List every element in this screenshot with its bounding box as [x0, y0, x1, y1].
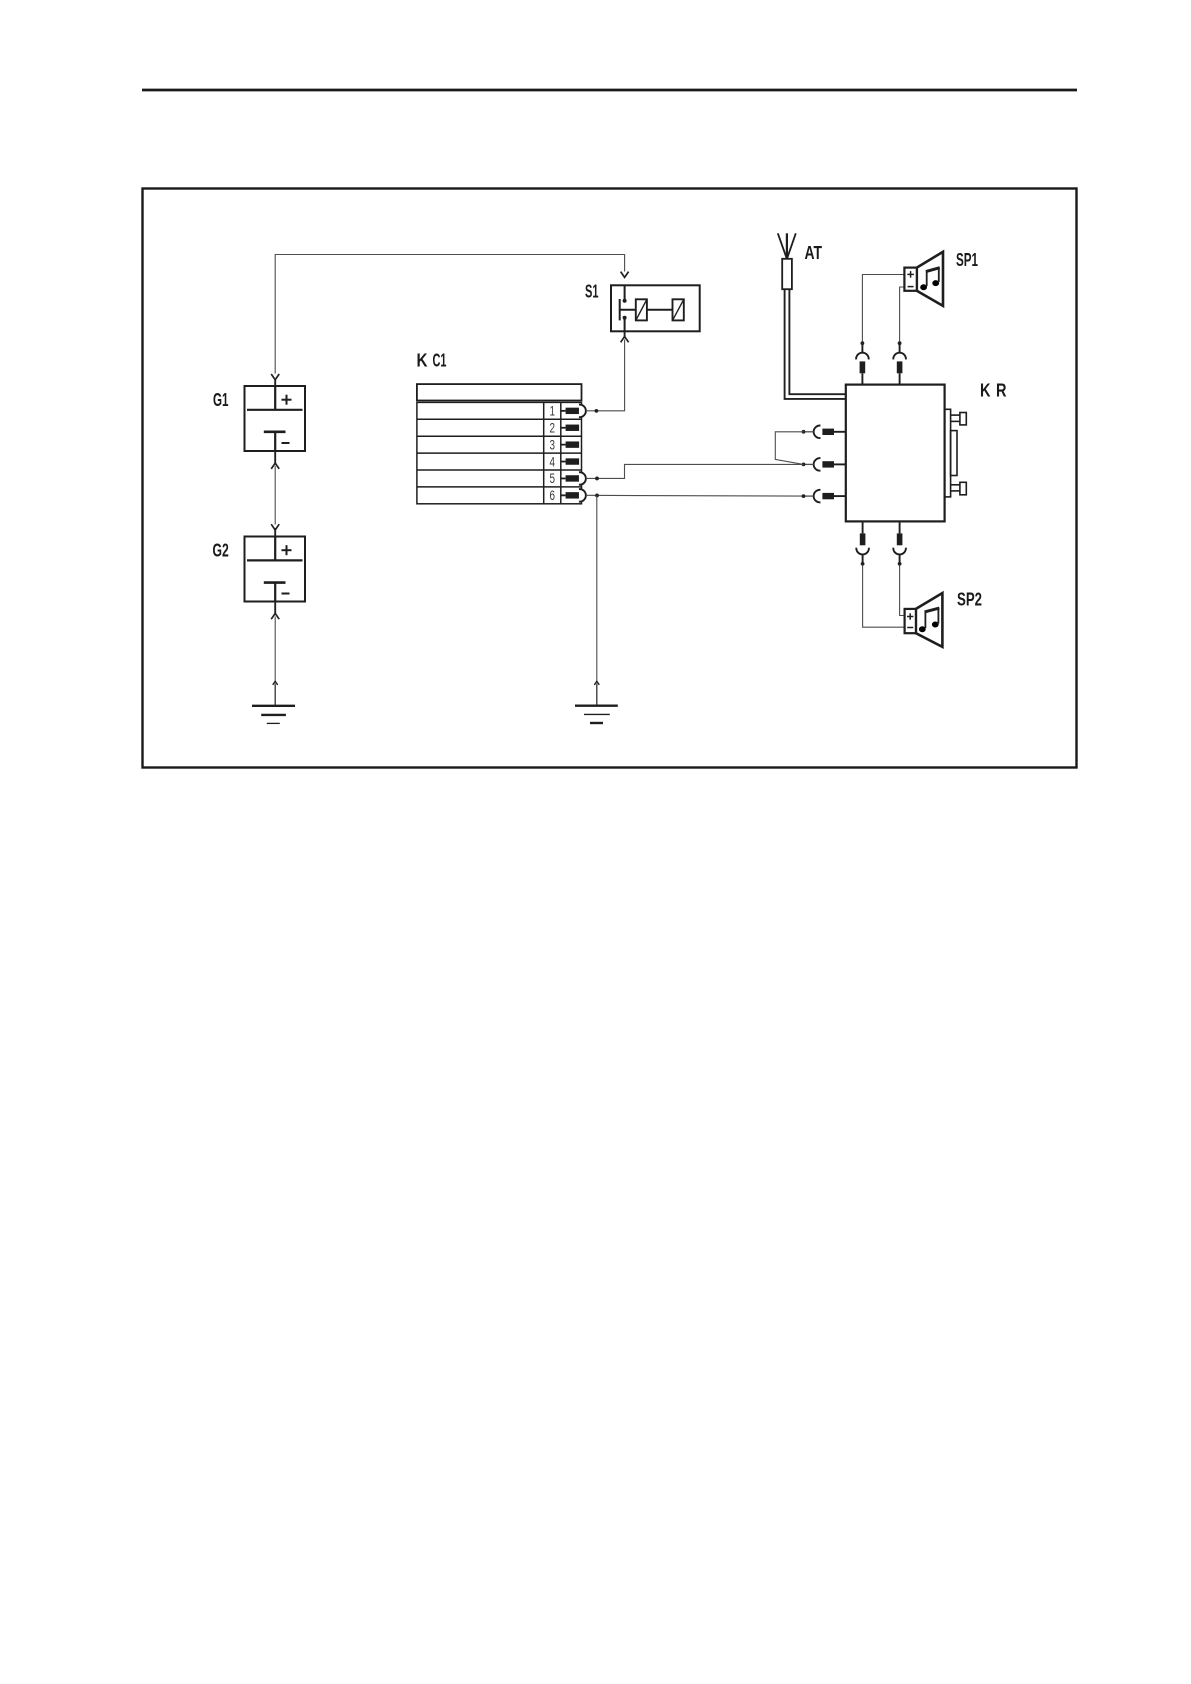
- radio bottom pin B2: [893, 521, 906, 565]
- pin 2 contact: [561, 425, 579, 431]
- switch S1: [611, 285, 700, 331]
- radio bottom pin B1: [856, 521, 869, 565]
- pin 1 contact: [561, 405, 586, 418]
- antenna coax to radio: [785, 289, 846, 399]
- speaker SP2: [905, 593, 943, 647]
- ground (battery): [252, 706, 295, 724]
- battery G1: [245, 386, 306, 451]
- svg-text:6: 6: [550, 488, 556, 503]
- pin 5 contact: [561, 472, 586, 485]
- svg-text:3: 3: [550, 437, 556, 452]
- svg-text:SP1: SP1: [956, 250, 978, 270]
- speaker SP1: [904, 252, 943, 306]
- wire SP2 minus: [863, 566, 905, 628]
- radio pin B (left middle): [802, 458, 846, 471]
- pin 6 contact: [561, 489, 586, 502]
- wire G1+ to S1 top: [275, 255, 624, 374]
- wire SP1 minus: [900, 287, 905, 342]
- wire pin 5 to radio: [586, 464, 804, 480]
- radio pin C (left bottom): [802, 490, 846, 503]
- svg-text:2: 2: [550, 421, 556, 436]
- svg-text:K: K: [980, 381, 991, 401]
- wire pin 6 to radio: [586, 494, 804, 498]
- battery G2: [245, 537, 306, 602]
- radio K R: [846, 385, 945, 522]
- svg-text:5: 5: [550, 471, 556, 486]
- arrow into S1 top: [621, 272, 629, 278]
- radio side bracket: [945, 409, 967, 497]
- arrow into G1 top: [271, 374, 279, 380]
- wire SP1 plus: [862, 275, 904, 342]
- svg-text:AT: AT: [805, 243, 823, 263]
- svg-text:G1: G1: [213, 390, 229, 410]
- svg-text:S1: S1: [585, 282, 599, 302]
- radio pin A (left top): [802, 425, 846, 438]
- wire pin 6 to ground: [594, 495, 599, 705]
- radio top pin T1: [856, 341, 869, 384]
- wire S1 bottom to pin 1: [586, 331, 629, 412]
- svg-text:4: 4: [550, 454, 556, 469]
- pin 4 contact: [561, 458, 579, 464]
- ground (K C1 pin 6): [575, 706, 618, 723]
- jumper wire pin A to pin B: [775, 432, 803, 465]
- connector K C1: [417, 384, 582, 504]
- svg-text:SP2: SP2: [957, 590, 982, 610]
- wire SP2 plus: [900, 566, 905, 616]
- svg-text:C1: C1: [433, 351, 447, 371]
- svg-text:1: 1: [550, 404, 556, 419]
- svg-text:R: R: [996, 381, 1007, 401]
- wire G1 minus to G2 plus: [271, 451, 279, 537]
- wire G2 minus to ground: [271, 602, 279, 706]
- radio top pin T2: [893, 341, 906, 384]
- antenna AT: [778, 233, 796, 289]
- pin 3 contact: [561, 441, 579, 447]
- wire stub into G1: [274, 380, 276, 387]
- svg-text:G2: G2: [213, 541, 229, 561]
- svg-text:K: K: [417, 351, 428, 371]
